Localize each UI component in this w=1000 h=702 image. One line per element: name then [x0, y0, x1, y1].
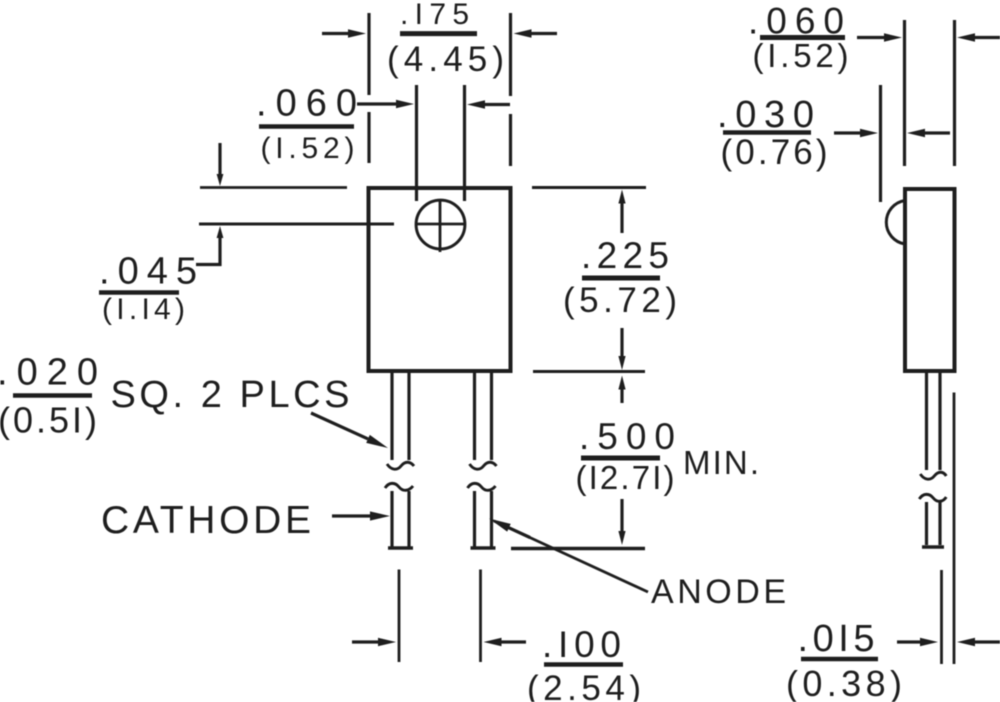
dim .045 up arrow + leader bend — [196, 226, 223, 266]
dim .500 extension line bottom — [511, 547, 645, 550]
dim .030 right arrow — [907, 129, 950, 137]
dim .015 left arrow — [897, 638, 938, 646]
svg-text:ANODE: ANODE — [651, 573, 786, 611]
text .020 — [0, 352, 98, 394]
fraction bar .060 side — [760, 35, 845, 40]
text .100 — [542, 624, 621, 665]
text .500 — [579, 416, 675, 457]
hole centerline extending left — [199, 223, 394, 226]
cathode lead (left, front view) — [385, 372, 414, 548]
fraction bar .030 — [723, 130, 811, 135]
dim .060 side extension line right — [953, 20, 956, 166]
fraction bar .500 — [581, 456, 660, 461]
svg-text:(0.38): (0.38) — [786, 663, 902, 702]
dim .175 extension line left — [367, 13, 370, 163]
dim .500 up arrow — [618, 376, 625, 404]
fraction bar .175 — [400, 31, 477, 36]
text MIN. — [683, 444, 759, 481]
dim .100 extension line left — [398, 570, 401, 663]
text (1.52) side — [753, 37, 849, 74]
text ANODE — [651, 573, 786, 611]
hole crosshair vertical — [439, 199, 442, 252]
fraction bar .100 — [544, 662, 623, 667]
svg-text:(4.45): (4.45) — [387, 40, 504, 79]
text (4.45) — [387, 40, 504, 79]
text (0.76) — [721, 133, 828, 172]
dim .030 left arrow — [834, 129, 878, 137]
dim .100 left arrow — [352, 638, 396, 646]
hole tangent extension line right — [463, 85, 466, 201]
side lead projection line left — [940, 570, 943, 664]
side view lens dome — [886, 201, 905, 245]
dim .500 down arrow — [618, 499, 625, 545]
text (1.52) hole — [261, 132, 355, 165]
svg-text:(5.72): (5.72) — [563, 281, 677, 320]
side view lead — [919, 372, 946, 547]
dim .060 side extension line left — [903, 20, 906, 166]
dim .030 extension line — [879, 85, 882, 202]
text .060 side — [748, 1, 844, 42]
text .045 — [99, 251, 197, 293]
text (12.71) — [576, 459, 675, 496]
hole crosshair horizontal — [417, 223, 464, 226]
fraction bar .015 — [801, 657, 878, 662]
dim .225 extension line bottom — [533, 370, 645, 373]
dim .060 hole right arrow — [467, 100, 510, 108]
svg-text:MIN.: MIN. — [683, 444, 759, 481]
anode lead (right, front view) — [468, 372, 497, 548]
text .030 — [717, 94, 814, 136]
fraction bar .045 — [99, 290, 179, 295]
text (0.38) — [786, 663, 902, 702]
svg-text:(I2.7I): (I2.7I) — [576, 459, 675, 496]
side view body outline — [905, 189, 955, 371]
svg-text:(0.76): (0.76) — [721, 133, 828, 172]
dim .060 side left arrow — [857, 33, 902, 41]
leader ANODE line — [494, 521, 648, 592]
text .060 hole — [256, 83, 357, 125]
fraction bar .020 — [13, 393, 92, 398]
dim .045 down arrow — [217, 143, 224, 186]
hole tangent extension line left — [415, 85, 418, 201]
text .175 — [400, 0, 469, 31]
leader SQ 2 PLCS to lead — [311, 413, 388, 448]
text .015 — [798, 618, 875, 660]
svg-text:CATHODE: CATHODE — [101, 499, 311, 542]
dim .015 right arrow — [957, 638, 1000, 646]
fraction bar .225 — [582, 276, 660, 281]
dim .175 extension line right — [509, 13, 512, 166]
text (5.72) — [563, 281, 677, 320]
dim .060 hole left arrow — [357, 100, 414, 108]
side lead projection line right — [953, 393, 956, 665]
dim .225 down arrow — [618, 328, 625, 370]
dim .100 right arrow — [484, 638, 527, 646]
svg-text:SQ. 2 PLCS: SQ. 2 PLCS — [111, 374, 350, 416]
svg-text:(2.54): (2.54) — [527, 669, 641, 702]
text SQ. 2 PLCS — [111, 374, 350, 416]
fraction bar .060 hole — [259, 124, 354, 129]
body-top reference line extending left — [200, 186, 347, 189]
dim .175 right arrow — [514, 29, 558, 37]
mounting hole circle — [416, 200, 465, 249]
text (2.54) — [527, 669, 641, 702]
dim .225 extension line top — [532, 186, 646, 189]
dim .175 left arrow — [322, 29, 366, 37]
text CATHODE — [101, 499, 311, 542]
dim .225 up arrow — [618, 190, 625, 234]
dim .100 extension line right — [479, 570, 482, 663]
leader ANODE arrowhead — [489, 519, 530, 538]
front view body outline — [369, 188, 511, 371]
text (1.14) — [102, 293, 185, 326]
dim .060 side right arrow — [957, 33, 1000, 41]
text (0.51) — [0, 400, 97, 441]
leader CATHODE arrow — [332, 511, 390, 520]
text .225 — [581, 235, 669, 276]
